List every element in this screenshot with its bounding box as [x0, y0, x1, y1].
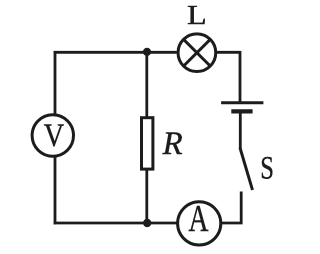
- wire lamp to battery corner: [216, 52, 240, 101]
- wire resistor branch upper: [145, 52, 148, 117]
- wire bottom horizontal: [54, 222, 177, 225]
- wire battery to switch: [239, 113, 242, 149]
- battery cell long plate: [221, 101, 263, 104]
- switch S blade: [240, 148, 253, 190]
- voltmeter U-V circle: [32, 115, 73, 156]
- junction node top: [143, 48, 151, 56]
- svg-text:A: A: [188, 198, 209, 240]
- svg-text:V: V: [44, 118, 65, 154]
- wire left rail lower: [54, 156, 57, 225]
- wire resistor branch lower: [145, 170, 148, 224]
- wire top horizontal: [54, 51, 177, 54]
- wire switch lower contact to ammeter: [221, 192, 242, 224]
- ammeter U-A circle: [178, 202, 221, 245]
- svg-text:R: R: [162, 126, 183, 162]
- junction node bottom: [143, 219, 151, 227]
- resistor R1 rectangle: [142, 118, 153, 169]
- lamp cross stroke 2: [184, 39, 211, 66]
- svg-text:L: L: [187, 0, 207, 30]
- lamp L circle: [178, 34, 216, 72]
- svg-text:S: S: [260, 150, 274, 186]
- lamp cross stroke 1: [184, 39, 211, 66]
- wire left rail upper: [54, 51, 57, 116]
- battery cell short plate: [231, 109, 252, 113]
